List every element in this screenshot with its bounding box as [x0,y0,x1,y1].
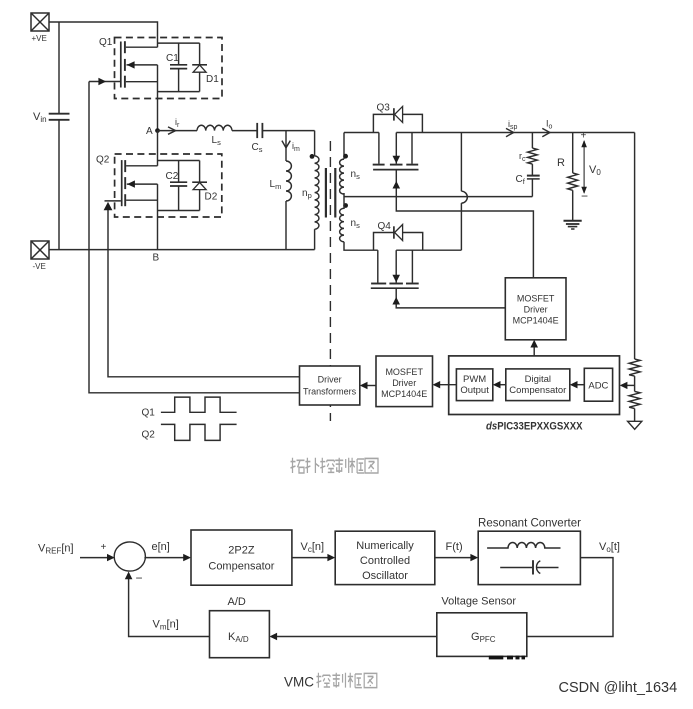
svg-text:Voltage Sensor: Voltage Sensor [441,596,516,608]
waveform Q1 [142,397,237,418]
transformer secondary ns lower [340,203,378,250]
PWM Output box [456,369,492,401]
svg-text:Q2: Q2 [96,155,110,166]
wire driver transformers to Q2 gate [104,201,300,377]
svg-text:C1: C1 [166,53,179,64]
diode Q3 body diode [373,106,422,132]
resistor divider lower [629,391,640,421]
svg-text:Digital: Digital [525,374,551,385]
arrow driver U3 to driver transformers [360,382,376,389]
label VREF[n] [38,543,74,556]
transformer primary np [302,131,319,250]
diode D1 [192,43,219,92]
svg-text:D1: D1 [206,74,219,85]
caption VMC control diagram [284,673,377,690]
svg-text:Q4: Q4 [378,221,392,232]
summing node minus [136,571,143,585]
svg-text:D2: D2 [205,192,218,203]
svg-text:e[n]: e[n] [152,541,170,553]
svg-text:Oscillator: Oscillator [362,570,408,582]
wire output rail to Q4 with hop over center tap [461,133,467,251]
svg-text:Output: Output [460,385,489,396]
svg-text:Compensator: Compensator [208,561,274,573]
svg-text:VMC: VMC [284,675,314,690]
svg-text:A/D: A/D [228,596,246,608]
wire Cs to primary [263,130,315,132]
watermark CSDN [559,680,678,696]
NCO box [335,531,435,584]
label Resonant Converter [478,518,581,530]
capacitor C2 [166,161,188,211]
waveform Q2 [142,424,237,440]
svg-text:2P2Z: 2P2Z [228,545,255,557]
wire left rail upper [58,22,60,114]
svg-text:MOSFET: MOSFET [517,294,555,304]
svg-text:Numerically: Numerically [356,540,414,552]
inductor Lm [270,161,292,250]
svg-text:F(t): F(t) [446,541,463,553]
wire Ls to Cs [232,130,257,132]
label Voltage Sensor [441,596,516,608]
svg-text:dsPIC33EPXXGSXXX: dsPIC33EPXXGSXXX [486,421,583,433]
svg-text:−: − [581,189,588,203]
transistor Q2 label [96,155,110,166]
transistor Q3 label [377,103,391,114]
svg-text:Driver: Driver [524,305,548,315]
Driver Transformers box [300,366,360,405]
diode Q4 body diode [374,225,423,251]
wire Q1 drain node [158,42,200,44]
wire Q1 source node [158,65,200,131]
capacitor Cs [252,123,263,154]
transistor Q3 MOSFET symbol [373,133,419,170]
wire VREF to summing node [80,554,115,561]
svg-text:Driver: Driver [318,375,342,385]
transistor Q1 MOSFET symbol [121,41,158,87]
svg-text:+: + [101,542,107,553]
wire secondary top rail left segment [344,132,379,134]
wire im branch with arrow [282,131,300,161]
resistor divider upper [629,359,640,391]
wire node A to Ls with ir arrow [158,117,198,134]
transistor Q4 MOSFET symbol [371,250,462,288]
inductor Ls [197,125,232,147]
+VE terminal [31,13,49,43]
node B label [153,253,160,264]
svg-text:Controlled: Controlled [360,555,410,567]
wire Q4 gate to driver [392,288,505,308]
wire secondary top rail right segment [396,132,634,134]
diode D2 [192,161,218,211]
svg-text:C2: C2 [166,171,179,182]
Resonant Converter box [478,531,580,584]
summing node circle [114,542,145,571]
svg-text:+: + [581,131,587,142]
watermark dashes under GPFC [489,656,525,660]
Digital Compensator box [506,369,570,401]
wire driver transformers to Q1 gate [89,78,300,393]
svg-text:CSDN @liht_1634: CSDN @liht_1634 [559,680,678,696]
svg-text:Compensator: Compensator [509,385,566,396]
label A/D [228,596,246,608]
svg-text:Resonant Converter: Resonant Converter [478,518,581,530]
dsPIC33 outer box [449,356,620,415]
svg-text:PWM: PWM [463,374,486,385]
capacitor C1 [166,43,187,92]
GPFC box [437,613,527,657]
wire Q2 drain node [158,131,200,166]
svg-text:Q2: Q2 [142,430,156,441]
wire KAD to summing node with Vm[n] [125,572,210,637]
isolation boundary dashed line [329,141,331,421]
caption topology control diagram [291,458,379,473]
ground triangle for divider [628,421,642,429]
svg-text:Vm[n]: Vm[n] [153,619,179,632]
svg-text:Transformers: Transformers [303,387,357,397]
svg-text:Q3: Q3 [377,103,391,114]
svg-text:MCP1404E: MCP1404E [381,389,427,399]
transformer core [326,168,335,218]
capacitor Cf [516,164,540,197]
summing node plus [101,542,107,553]
node A [146,126,160,137]
svg-text:ADC: ADC [588,381,608,392]
svg-text:A: A [146,126,153,137]
KAD box [210,611,270,658]
svg-text:Vc[n]: Vc[n] [301,541,325,554]
ADC box [584,368,612,401]
svg-text:B: B [153,253,160,264]
transistor Q4 label [378,221,392,232]
arrow PWM to MOSFET driver U3 [433,381,457,388]
wire dsPIC to driver arrow [530,340,538,356]
resistor rc [519,133,537,165]
svg-text:MOSFET: MOSFET [385,367,423,377]
wire resonant converter output Vo[t] [527,541,620,637]
MOSFET driver U2 box (secondary) [505,278,566,340]
svg-text:−: − [136,571,143,585]
svg-text:-VE: -VE [33,262,46,271]
wire output right rail [634,133,636,360]
transistor Q2 dashed box [115,154,222,217]
capacitor inside resonant converter [500,560,558,574]
annotation V0 with plus minus arrows [581,131,602,204]
svg-text:+VE: +VE [32,34,47,43]
wire Q2 source node [158,184,200,250]
inductor inside resonant converter [487,543,560,549]
wire Q3 gate to driver [393,170,534,278]
resistor R load [557,133,578,221]
svg-text:R: R [557,157,565,169]
wire 2P2Z to NCO with Vc[n] [292,541,335,561]
wire summing node to 2P2Z with e[n] [144,541,191,561]
wire center tap [344,193,532,209]
wire left rail lower [58,120,60,250]
svg-text:Q1: Q1 [142,408,156,419]
transistor Q2 MOSFET symbol [122,160,158,206]
label dsPIC33EPXXGSXXX [486,421,583,433]
wire divider tap to ADC arrow [620,382,635,389]
current arrow isp [506,119,518,137]
wire NCO to resonant converter with F(t) [435,541,478,561]
arrow ADC to Digital Compensator [570,381,585,388]
capacitor Vin [33,111,70,124]
ground for R load [564,221,582,229]
-VE terminal [31,241,49,271]
MOSFET driver U3 box (primary) [376,356,433,407]
wire top rail [49,22,158,47]
svg-text:Q1: Q1 [99,37,113,48]
transistor Q1 label [99,37,113,48]
svg-text:MCP1404E: MCP1404E [513,316,559,326]
transistor Q1 dashed box [115,38,223,99]
transformer secondary ns upper [340,133,360,195]
arrow Digital Compensator to PWM [493,381,506,388]
current arrow Io [542,119,552,137]
svg-text:Driver: Driver [392,378,416,388]
2P2Z Compensator box [191,530,292,585]
wire bottom rail [49,249,315,251]
wire GPFC to KAD arrow [269,633,436,640]
